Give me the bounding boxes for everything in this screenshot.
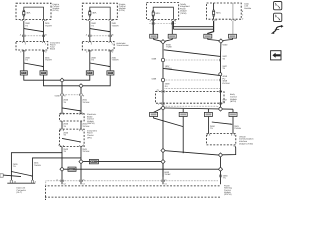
wire: C_c to splice S4 bbox=[208, 38, 219, 40]
svg-text:4BA: 4BA bbox=[26, 11, 31, 14]
svg-text:TN/WH: TN/WH bbox=[112, 24, 119, 27]
radio dashed box (bottom box P) bbox=[45, 186, 219, 200]
back arrow box bbox=[271, 51, 281, 60]
svg-text:S400: S400 bbox=[222, 43, 228, 46]
svg-text:TN: TN bbox=[223, 177, 226, 180]
splice S3 diamond bbox=[161, 40, 165, 44]
svg-text:TN/WH: TN/WH bbox=[82, 150, 89, 153]
fuse F4 feed wire bbox=[213, 3, 215, 10]
svg-text:MOL: MOL bbox=[216, 11, 222, 14]
svg-text:TN: TN bbox=[63, 125, 66, 128]
feed lines from box3 to box4 drop bbox=[172, 21, 174, 29]
wire: S2 down to connector row bbox=[80, 88, 82, 94]
connector C_c bbox=[204, 34, 212, 38]
wire: S1 down to connector row bbox=[61, 82, 63, 94]
connector K1 bbox=[150, 112, 158, 116]
svg-text:TN/BK: TN/BK bbox=[164, 173, 171, 176]
wire: K3 drop to VCIM bbox=[208, 117, 210, 134]
pin 1 of box3 bbox=[152, 19, 154, 21]
twist crossover block1 pair bbox=[24, 29, 44, 32]
pin 2 of box3 bbox=[172, 19, 174, 21]
svg-text:TN/WH: TN/WH bbox=[234, 127, 241, 130]
inline connector J6 on bus2 bbox=[68, 167, 76, 171]
svg-text:TN: TN bbox=[222, 58, 225, 61]
wire: block2 pinA down to IP box2 bbox=[89, 21, 91, 42]
svg-text:Module: Module bbox=[244, 7, 252, 10]
center column splice S12 diamond bbox=[161, 160, 165, 164]
svg-text:TN: TN bbox=[25, 24, 28, 27]
twist crossover DLC pair bbox=[11, 172, 32, 177]
twist crossover VCIM pair bbox=[212, 122, 232, 124]
pin 2 of box2 bbox=[109, 19, 111, 21]
wire: box4 feed bold down to connector C_c bbox=[208, 21, 214, 35]
wire: IP box1 to connector J2 bbox=[43, 50, 45, 71]
twist crossover below IP box2 bbox=[90, 63, 110, 67]
right rail wire (upper) bbox=[220, 43, 222, 107]
splice S2 diamond bbox=[79, 84, 83, 88]
edge connector stub bbox=[0, 174, 3, 177]
wire: S12 down to bottom connector bbox=[162, 164, 164, 185]
pin 2 of box1 bbox=[42, 19, 44, 21]
inline connector J3 bbox=[86, 71, 93, 75]
fuse F1 bbox=[23, 10, 25, 12]
DLC terminal 2 bbox=[31, 180, 33, 183]
wire: VCIM exit to splice S7 bbox=[223, 146, 236, 155]
stub diagonal bbox=[3, 175, 21, 177]
stub: S5 to connector K1 bbox=[154, 109, 161, 113]
splice S4 diamond bbox=[219, 39, 223, 43]
svg-text:TN/BK: TN/BK bbox=[166, 46, 173, 49]
inline connector J2 bbox=[40, 71, 47, 75]
wire: K2 drop to slant bus bbox=[182, 117, 184, 154]
wire: C_a to splice S3 bbox=[154, 38, 162, 41]
svg-text:C200: C200 bbox=[55, 94, 61, 97]
splice S10 diamond bbox=[60, 167, 64, 171]
wire: IP box1 to connector J1 bbox=[23, 50, 25, 71]
splice ring R2 bbox=[161, 78, 164, 81]
module box1 (underhood fuse block, left) bbox=[16, 3, 51, 19]
pin 2 of box4 bbox=[232, 19, 234, 21]
svg-text:TN/WH: TN/WH bbox=[82, 101, 89, 104]
IP box2 exit pins bbox=[89, 50, 112, 52]
right rail exit pin bbox=[219, 175, 221, 178]
connector K4 bbox=[229, 112, 237, 116]
module box4 (fuse block, top right) bbox=[207, 3, 242, 19]
right rail wire (lower) bbox=[220, 157, 222, 184]
splice S11 diamond bbox=[79, 160, 83, 164]
wire: IP box2 to connector J3 bbox=[89, 50, 91, 71]
bus upper: J1 to J3 bbox=[24, 75, 90, 80]
inline connector J1 bbox=[20, 71, 27, 75]
svg-text:TN: TN bbox=[210, 127, 213, 130]
dotted rung 2 bbox=[165, 79, 220, 81]
wire: connector row to EBCM box left bbox=[61, 96, 63, 114]
svg-text:TN/WH: TN/WH bbox=[112, 59, 119, 62]
svg-text:(ECM): (ECM) bbox=[53, 9, 59, 12]
pin 1 of box2 bbox=[89, 19, 91, 21]
IP fuse block box1 (dashed) bbox=[16, 42, 48, 51]
wire: box4 top edge to right pin bbox=[232, 3, 234, 19]
cluster exit pins bbox=[61, 145, 82, 147]
connector C_d bbox=[229, 34, 237, 38]
module box1 inner housing bbox=[24, 7, 44, 19]
splice S9 diamond (right rail lower) bbox=[218, 167, 222, 171]
wire: box3 fuse feed down to connector C_a (bold) bbox=[152, 17, 154, 35]
stub: connector K3 bbox=[207, 109, 209, 112]
connector C_b bbox=[168, 34, 176, 38]
DLC terminal 1 bbox=[10, 180, 12, 183]
svg-text:(IPC): (IPC) bbox=[87, 136, 92, 139]
svg-text:TN: TN bbox=[91, 59, 94, 62]
svg-text:TN: TN bbox=[63, 150, 66, 153]
splice S7 diamond (right rail) bbox=[218, 153, 222, 157]
wire: box3 right pin down to connector C_b bbox=[171, 21, 173, 34]
svg-text:TN/WH: TN/WH bbox=[82, 125, 89, 128]
connector C_a bbox=[150, 34, 158, 38]
svg-text:4BA: 4BA bbox=[92, 11, 97, 14]
pin 1 of box4 bbox=[212, 19, 214, 21]
wire: cluster right pin down to splice S11 bbox=[80, 147, 82, 185]
wire: C_b to splice S3 bbox=[165, 38, 172, 41]
BCM exit pins bbox=[162, 102, 222, 104]
svg-text:TN/WH: TN/WH bbox=[45, 24, 52, 27]
legend curved arrow bbox=[273, 26, 281, 32]
slant bus: S8 to S7 bbox=[165, 151, 220, 156]
splice S1 diamond bbox=[60, 78, 64, 82]
left rail wire bbox=[162, 44, 164, 177]
wire: block1 pinB down to IP box1 bbox=[43, 21, 45, 42]
twist crossover below IP box1 bbox=[24, 63, 44, 67]
module box3 inner housing bbox=[153, 7, 173, 19]
bottom inline connector dotted row bbox=[46, 181, 219, 185]
IP box1 exit pins bbox=[23, 50, 45, 52]
bus1: S11 to center column bbox=[83, 161, 161, 163]
svg-text:(BCM): (BCM) bbox=[230, 100, 236, 103]
bottom row pins bbox=[61, 180, 164, 182]
svg-text:Module (VCIM): Module (VCIM) bbox=[239, 142, 253, 145]
stub: connector K4 bbox=[232, 109, 234, 112]
inline connector dotted line block2 bbox=[88, 35, 112, 37]
splice ring R3 on right rail bbox=[219, 73, 222, 76]
inline connector J5 on bus1 bbox=[89, 159, 98, 163]
svg-text:Transmission: Transmission bbox=[116, 44, 129, 47]
splice ring R1 bbox=[161, 58, 164, 61]
legend icon square 1 bbox=[274, 2, 282, 10]
wire: block2 pinB down to IP box2 bbox=[109, 21, 111, 42]
inline connector J4 bbox=[107, 71, 114, 75]
bus lower: J2 to J4 bbox=[44, 75, 111, 86]
wire: EBCM to module box below left bbox=[61, 121, 63, 129]
VCIM exit pin bbox=[233, 145, 235, 147]
svg-text:PU: PU bbox=[165, 85, 168, 88]
wire: fuse F4 to pin bbox=[213, 17, 215, 20]
dotted rung 4 below BCM bbox=[165, 106, 220, 107]
EBCM dashed box bbox=[59, 114, 84, 121]
distribution line to right modules bbox=[165, 108, 233, 109]
wire: box4 right pin down to connector C_d bbox=[232, 21, 234, 35]
svg-text:TN: TN bbox=[91, 24, 94, 27]
svg-text:(EBCM): (EBCM) bbox=[87, 122, 95, 125]
fuse F2 bbox=[89, 10, 91, 12]
IP fuse block box2 (dashed) bbox=[82, 42, 114, 51]
DLC feed wire 2 bbox=[33, 158, 82, 181]
wire: K4 drop to VCIM bbox=[232, 117, 234, 134]
fuse F3 bbox=[152, 11, 154, 13]
svg-text:TN: TN bbox=[222, 101, 225, 104]
bus2: S10 to S9 bbox=[64, 168, 218, 170]
central column splice S8 diamond bbox=[161, 148, 165, 152]
svg-text:MOL: MOL bbox=[156, 12, 162, 15]
inline connector dotted line mid bbox=[60, 94, 83, 96]
splice S6 diamond (right rail) bbox=[218, 107, 222, 111]
dotted rung 1 bbox=[165, 59, 220, 61]
VCIM dashed box bbox=[207, 134, 236, 145]
svg-text:TN: TN bbox=[25, 59, 28, 62]
svg-text:TN: TN bbox=[63, 134, 66, 137]
fuse F4 bbox=[213, 10, 215, 12]
stub: connector K2 bbox=[182, 109, 184, 113]
module box3 (fuse block, upper center-right) bbox=[147, 3, 179, 20]
instrument cluster dashed box bbox=[59, 129, 84, 147]
legend icon square 2 bbox=[274, 13, 282, 21]
svg-text:TN: TN bbox=[13, 165, 16, 168]
wire: K1 diagonal to K2 drop bbox=[154, 117, 184, 127]
wire: connector row to EBCM box right bbox=[80, 96, 82, 114]
IP box1 entry pins bbox=[23, 42, 45, 44]
inline connector dotted line block1 bbox=[22, 35, 45, 37]
twist crossover inside cluster box bbox=[62, 138, 81, 142]
svg-text:PU/WH: PU/WH bbox=[222, 82, 229, 85]
svg-text:TN/WH: TN/WH bbox=[34, 164, 41, 167]
module box2 inner housing bbox=[90, 7, 110, 19]
module box2 (underhood fuse block, right of pair) bbox=[82, 3, 117, 19]
svg-text:(PSCM): (PSCM) bbox=[224, 193, 232, 196]
wire: EBCM to module box below right bbox=[80, 121, 82, 129]
twist crossover above EBCM bbox=[62, 108, 81, 111]
IP box2 entry pins bbox=[89, 42, 112, 44]
amplifier dashed box (bottom box Q) bbox=[45, 197, 220, 200]
DLC feed wire 1 bbox=[11, 153, 62, 181]
splice S5 diamond (center col) bbox=[161, 106, 165, 110]
connector K3 bbox=[204, 112, 212, 116]
wire: cluster left pin down to splice S10 bbox=[61, 147, 63, 185]
svg-text:TN: TN bbox=[222, 67, 225, 70]
svg-text:TN/WH: TN/WH bbox=[45, 59, 52, 62]
twisted diagonal 2 bbox=[163, 68, 221, 75]
svg-text:(DLC): (DLC) bbox=[16, 191, 22, 194]
svg-text:TN: TN bbox=[63, 101, 66, 104]
wire: C_d to splice S4 bbox=[223, 38, 233, 40]
svg-text:(ECM): (ECM) bbox=[119, 9, 125, 12]
svg-text:(TIPM): (TIPM) bbox=[180, 12, 187, 15]
twist crossover block2 pair bbox=[90, 29, 110, 32]
pin 1 of box1 bbox=[23, 19, 25, 21]
BCM band box (dashed) bbox=[156, 92, 225, 104]
inline connector dotted line box3 bbox=[149, 23, 177, 25]
wire: block1 pinA down to IP box1 bbox=[23, 21, 25, 42]
DLC body bar bbox=[7, 182, 35, 184]
twisted diagonal 1 bbox=[164, 50, 221, 57]
dotted rung 3 bbox=[165, 88, 220, 90]
wire: IP box2 to connector J4 bbox=[109, 50, 111, 71]
connector K2 bbox=[179, 112, 187, 116]
